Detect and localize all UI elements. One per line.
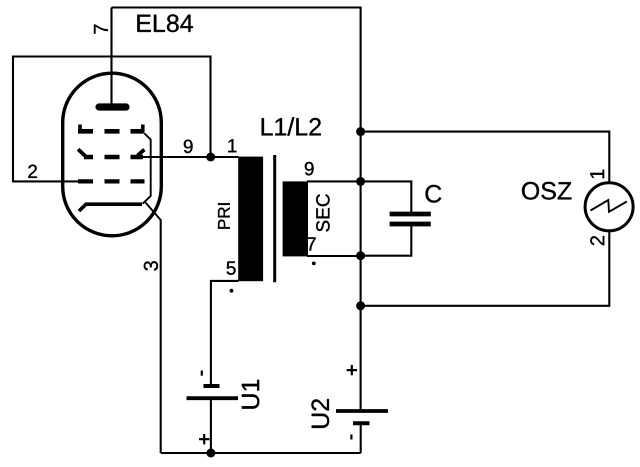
node junction bus/sec9/C-top <box>356 177 365 186</box>
wire secondary pin 9 to bus <box>307 180 361 182</box>
node junction bus/OSZ-top <box>356 127 365 136</box>
wire capacitor bottom lead <box>361 224 412 256</box>
primary phase dot <box>230 289 234 293</box>
label C <box>426 185 442 203</box>
label EL84 <box>137 14 193 32</box>
node junction bus/OSZ-bottom <box>356 301 365 310</box>
battery U2 short negative plate <box>353 421 370 425</box>
capacitor C bottom plate <box>390 222 431 227</box>
pin label 1 OSZ rotated <box>590 170 604 179</box>
label PRI rotated <box>218 203 230 228</box>
wire U2 to bottom rail <box>360 423 362 453</box>
label L1/L2 <box>262 117 321 135</box>
pin label 3 rotated <box>144 261 158 270</box>
wire pin 9 to transformer primary pin 1 <box>140 156 239 158</box>
grid g1 dashes (pin 2) <box>78 179 145 183</box>
wire U1 to bottom rail <box>210 398 212 453</box>
wire pin 3 down left side <box>160 220 162 454</box>
U2 plus sign <box>347 365 357 375</box>
wire capacitor top lead <box>361 181 412 214</box>
oscilloscope OSZ circle <box>585 183 633 231</box>
internal link g3 to cathode <box>143 134 151 204</box>
label SEC rotated <box>316 194 330 231</box>
wire primary pin 5 to battery U1 <box>211 281 239 384</box>
label U1 rotated <box>242 380 259 409</box>
cathode <box>79 204 142 211</box>
pin label 2 <box>28 165 37 178</box>
label U2 rotated <box>311 399 329 428</box>
pin label 9 <box>184 140 193 154</box>
transformer secondary winding L2 <box>283 181 308 256</box>
U1 minus sign <box>201 371 203 376</box>
battery U1 long positive plate <box>187 396 239 400</box>
sawtooth symbol <box>591 200 627 212</box>
node junction bottom rail / U1 <box>206 449 215 458</box>
label OSZ <box>522 182 571 200</box>
wire bus to OSZ top <box>361 132 610 182</box>
anode plate bar <box>99 103 126 110</box>
wire right vertical HT bus <box>360 7 362 410</box>
wire bottom rail <box>161 452 361 454</box>
wire pin 7 anode lead <box>110 8 112 105</box>
node junction bus/sec7/C-bottom <box>356 251 365 260</box>
battery U1 short negative plate <box>204 384 220 388</box>
capacitor C top plate <box>390 212 431 217</box>
secondary phase dot <box>312 262 316 266</box>
battery U2 long positive plate <box>336 409 388 413</box>
pin label 9 secondary <box>305 162 314 176</box>
pin label 2 OSZ rotated <box>590 236 604 245</box>
wire top rail (pin 7 to HT bus) <box>112 6 361 8</box>
node junction pin9/feedback <box>206 153 215 162</box>
transformer core <box>273 155 276 282</box>
tube V1 EL84 envelope <box>63 73 162 236</box>
pin label 1 primary <box>228 139 236 152</box>
pin label 5 primary <box>227 262 236 275</box>
grid g2 dashes with diagonal ticks (pin 9) <box>78 149 85 156</box>
U2 minus sign <box>350 435 352 440</box>
U1 plus sign <box>199 434 209 444</box>
transformer primary winding L1 <box>238 157 263 282</box>
pin label 7 secondary <box>307 237 316 250</box>
wire OSZ bottom to bus <box>361 232 610 306</box>
wire secondary pin 7 to bus <box>307 255 361 257</box>
grid g3 dashes with end hooks <box>78 125 82 132</box>
wire feedback loop to pin 2 <box>13 57 211 182</box>
pin label 7 rotated <box>94 25 108 34</box>
cathode lead to pin 3 <box>146 203 161 221</box>
